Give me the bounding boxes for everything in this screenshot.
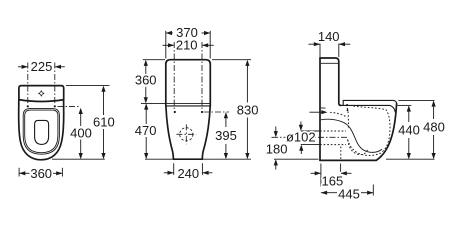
dim 140: right arrow: [339, 43, 350, 45]
drain pipe bottom edge (outside): [301, 144, 320, 146]
flush button: [38, 90, 45, 97]
svg-text:830: 830: [237, 102, 259, 117]
extension floor left: [145, 158, 174, 160]
inlet hidden channel descending: [330, 112, 347, 117]
extension floor left (side view): [274, 158, 319, 160]
dim 240: right arrow: [203, 172, 213, 174]
dim 395 line: [225, 113, 227, 127]
seat hinge bolt right: [54, 105, 56, 107]
tank lid seam (side): [321, 62, 338, 64]
dim 370: right extension: [209, 31, 211, 59]
extension tank top left: [143, 59, 165, 61]
dim 140: left arrow: [309, 43, 320, 45]
svg-text:140: 140: [318, 29, 340, 44]
trap hidden arc: [348, 140, 368, 155]
dim 240: left extension: [173, 163, 175, 175]
dim ø102: bottom arrow: [300, 146, 302, 154]
dim 210: left extension dash-dot: [173, 42, 175, 111]
svg-text:210: 210: [176, 38, 198, 53]
outlet hidden vertical: [340, 147, 342, 161]
drain axis dash-dot: [272, 136, 348, 138]
dim 210: right arrow: [202, 44, 213, 46]
cistern tank outline (top view): [19, 86, 64, 102]
fixing bolt right: [201, 111, 203, 113]
dim 445 line + arrows: [321, 192, 337, 194]
extension seat level right: [399, 99, 435, 101]
dim 165: left arrow: [311, 172, 321, 174]
dim 240: left arrow: [164, 172, 174, 174]
dim 610 line: [103, 87, 105, 115]
seat ring outer line: [23, 109, 59, 155]
dim 370 line + arrows: [166, 32, 173, 34]
svg-text:180: 180: [266, 142, 288, 157]
dim 180: top arrow: [275, 127, 277, 136]
drain pipe hidden bottom: [320, 144, 346, 146]
dim 360 line + arrows: [19, 172, 29, 174]
tank lid lower edge: [166, 102, 211, 104]
bowl inner opening: [35, 120, 49, 144]
bowl outer profile (side): [376, 104, 396, 161]
pedestal outline front: [166, 106, 210, 159]
svg-text:225: 225: [31, 59, 53, 74]
tank side outline: [320, 58, 341, 105]
rim back stub line: [321, 107, 326, 109]
dim 225: left arrow: [18, 66, 28, 68]
dim 225: right extension dash-dot: [54, 63, 56, 106]
dim 370: left extension: [165, 31, 167, 59]
water inlet arrow: [310, 111, 323, 113]
bowl cavity hidden outline: [347, 104, 391, 155]
dim 360: right extension: [61, 168, 63, 177]
dim 360 (front) line: [145, 61, 147, 74]
fixing bolt left: [174, 111, 176, 113]
dim 480 line: [433, 102, 435, 119]
svg-text:400: 400: [70, 125, 92, 140]
extension tank bottom left: [141, 102, 166, 104]
inner rim visible curve: [321, 119, 382, 152]
extension line bottom right: [52, 158, 105, 160]
extension dash-dot hinge line right: [58, 105, 79, 107]
extension line tank top right: [66, 85, 110, 87]
svg-text:395: 395: [215, 128, 237, 143]
bowl outer outline (top view): [19, 100, 64, 160]
dim 400 line: [80, 109, 82, 126]
tank front outline: [166, 60, 211, 106]
dim 210: right extension dash-dot: [201, 42, 203, 111]
back wall vertical: [319, 58, 321, 160]
dim 180: bottom arrow: [275, 161, 277, 170]
dim ø102: top arrow: [300, 122, 302, 130]
drain center line vertical: [185, 124, 187, 144]
dim 180: center-line stub: [271, 136, 274, 138]
dim 165: drain extension: [340, 164, 342, 172]
extension dash-dot bolt line right: [204, 111, 230, 113]
drain center line horizontal: [176, 133, 196, 135]
dim 240: right extension: [201, 163, 203, 175]
base bottom: [320, 159, 376, 161]
dim 165: right arrow: [341, 172, 352, 174]
svg-text:360: 360: [30, 166, 52, 181]
seat hinge bolt left: [27, 105, 29, 107]
svg-text:610: 610: [93, 115, 115, 130]
seat slab (side): [343, 100, 396, 105]
dim 140: right extension: [338, 44, 340, 58]
tank bottom edge: [166, 105, 211, 107]
dim 445: right extension: [372, 185, 374, 196]
bowl rim line (side): [341, 105, 395, 112]
dim 210: left arrow: [163, 44, 174, 46]
dim 140: left extension: [319, 44, 321, 58]
svg-text:440: 440: [398, 123, 420, 138]
dim 165: left extension: [320, 164, 322, 187]
dim 440 line: [408, 107, 410, 122]
dim 225: right arrow: [55, 66, 65, 68]
extension rim level right: [398, 104, 412, 106]
svg-text:240: 240: [177, 166, 199, 181]
extension floor right: [386, 158, 435, 160]
dim 225: left extension dash-dot: [27, 63, 29, 106]
svg-text:445: 445: [338, 186, 360, 201]
extension tank top right: [212, 59, 251, 61]
drain pipe hidden top: [320, 130, 346, 132]
svg-text:480: 480: [423, 120, 445, 135]
seat ring inner line: [25, 110, 58, 153]
dim 360: left extension: [18, 168, 20, 177]
drain hole dashed circle: [180, 128, 193, 141]
svg-text:ø102: ø102: [286, 130, 316, 145]
extension floor right: [203, 158, 251, 160]
drain pipe top edge (outside): [301, 130, 320, 132]
dim 470 line: [145, 105, 147, 124]
svg-text:470: 470: [135, 123, 157, 138]
seat hinge bolt (side): [347, 109, 349, 111]
cavity back hidden line: [346, 105, 348, 130]
dim 830 line: [246, 61, 248, 102]
svg-text:360: 360: [135, 73, 157, 88]
